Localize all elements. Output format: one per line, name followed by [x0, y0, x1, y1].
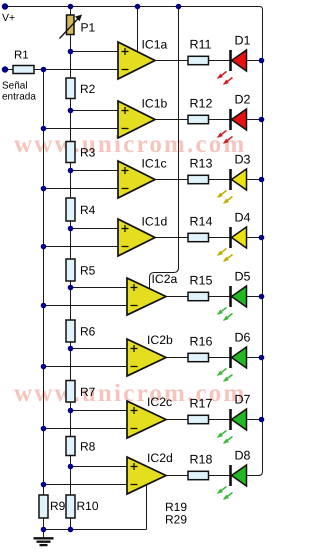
wire: D7 to rail [247, 419, 263, 421]
node: top rail IC1 feed junction [135, 4, 141, 10]
svg-text:P1: P1 [81, 21, 96, 35]
wire: R10 to ground bus [70, 518, 72, 530]
node: signal bus tap to IC2b - [41, 364, 47, 370]
wire: signal bus vertical (R1 node to R9) [43, 70, 45, 496]
LED D2 [217, 109, 247, 144]
op-amp IC2d [127, 457, 166, 494]
wire: R7 to R8 [70, 402, 72, 437]
node: D5 anode rail junction [259, 294, 265, 300]
node: signal bus tap to IC1c - [41, 186, 47, 192]
resistor R1 [13, 66, 34, 74]
svg-text:R4: R4 [80, 203, 96, 217]
svg-text:www.unicrom.com: www.unicrom.com [14, 131, 247, 158]
op-amp IC1a [118, 42, 155, 79]
svg-text:R5: R5 [80, 264, 96, 278]
svg-text:R18: R18 [190, 453, 213, 467]
wire: R13 to D3 [209, 179, 231, 181]
LED D8 [217, 465, 247, 500]
wire: R9 to ground bus [43, 518, 45, 530]
svg-text:R8: R8 [80, 440, 96, 454]
op-amp IC1d [118, 219, 155, 256]
wire: IC2b + input [71, 348, 128, 350]
node: D1 anode rail junction [259, 58, 265, 64]
resistor R8 [66, 437, 75, 456]
svg-text:V+: V+ [2, 12, 15, 24]
wire: IC1b - input [44, 128, 119, 130]
op-amp IC2c [127, 401, 166, 438]
node: signal bus tap to IC2c - [41, 426, 47, 432]
wire: IC2a + input [71, 287, 128, 289]
resistor R9 [39, 495, 48, 518]
svg-text:R11: R11 [190, 38, 212, 52]
wire: IC2a V+ power feed elbow [150, 7, 179, 289]
resistor R18 [188, 471, 209, 479]
svg-text:R7: R7 [80, 385, 96, 399]
node: D7 anode rail junction [259, 417, 265, 423]
wire: IC2c - input [44, 428, 128, 430]
potentiometer P1 [60, 15, 83, 39]
svg-text:D6: D6 [235, 331, 251, 345]
wire: IC2d ground feed [146, 485, 148, 530]
wire: V+ rail to P1 [70, 7, 72, 16]
LED D3 [217, 169, 247, 204]
op-amp IC2a [127, 278, 166, 315]
wire: P1 to R2 [70, 35, 72, 79]
node: divider tap to IC2a + [68, 285, 74, 291]
wire: IC2d - input [44, 484, 128, 486]
wire: IC2c output [166, 419, 188, 421]
wire: IC1d output [155, 237, 188, 239]
node: top rail P1 junction [68, 4, 74, 10]
node: D4 anode rail junction [259, 235, 265, 241]
svg-text:R16: R16 [190, 335, 213, 349]
resistor R13 [188, 175, 209, 183]
wire: IC2a output [166, 296, 188, 298]
wire: D6 to rail [247, 357, 263, 359]
wire: ground bus [44, 529, 147, 531]
node: D2 anode rail junction [259, 117, 265, 123]
wire: R1 to IC1a - input [34, 69, 118, 71]
wire: R8 to R10 [70, 456, 72, 496]
LED D1 [217, 50, 247, 85]
node: V+ terminal [2, 3, 8, 9]
node: divider tap to IC2b + [68, 346, 74, 352]
wire: IC2b - input [44, 366, 128, 368]
svg-text:IC2a: IC2a [152, 272, 178, 286]
svg-text:Señal: Señal [2, 81, 28, 92]
svg-text:IC1b: IC1b [142, 97, 168, 111]
node: signal bus tap to IC2a - [41, 303, 47, 309]
wire: IC2b output [166, 357, 188, 359]
wire: IC1c output [155, 179, 188, 181]
wire: top V+ rail and right rail [5, 7, 263, 476]
wire: R6 to R7 [70, 342, 72, 381]
wire: IC2a - input [44, 305, 128, 307]
wire: R16 to D6 [209, 357, 231, 359]
svg-text:D3: D3 [235, 153, 251, 167]
op-amp IC1c [118, 161, 155, 198]
resistor R12 [188, 115, 209, 123]
wire: IC1c + input [71, 170, 119, 172]
node: divider tap to IC1a + [68, 49, 74, 55]
wire: R4 to R5 [70, 221, 72, 259]
resistor R15 [188, 292, 209, 300]
wire: IC1a V+ power feed [137, 7, 139, 52]
wire: R18 to D8 [209, 475, 231, 477]
wire: D2 to rail [247, 119, 263, 121]
svg-text:IC1d: IC1d [142, 215, 168, 229]
svg-text:D8: D8 [235, 449, 251, 463]
wire: IC1b + input [71, 110, 119, 112]
svg-text:D4: D4 [235, 211, 251, 225]
node: D3 anode rail junction [259, 177, 265, 183]
op-amp IC2b [127, 339, 166, 376]
node: D6 anode rail junction [259, 355, 265, 361]
LED D6 [217, 347, 247, 382]
wire: D3 to rail [247, 179, 263, 181]
wire: IC2d + input [71, 466, 128, 468]
ground [34, 530, 54, 546]
resistor R14 [188, 233, 209, 241]
svg-text:R2: R2 [80, 82, 96, 96]
node: signal bus tap to IC2d - [41, 482, 47, 488]
svg-text:R3: R3 [80, 146, 96, 160]
svg-text:R9: R9 [50, 499, 66, 513]
svg-text:IC2b: IC2b [147, 333, 173, 347]
resistor R6 [66, 320, 75, 342]
wire: IC1a + input [71, 51, 119, 53]
wire: R12 to D2 [209, 119, 231, 121]
svg-text:R14: R14 [190, 215, 213, 229]
svg-text:D5: D5 [235, 270, 251, 284]
svg-text:R15: R15 [190, 274, 213, 288]
wire: D1 to rail [247, 60, 263, 62]
svg-text:D7: D7 [235, 393, 251, 407]
svg-text:R17: R17 [190, 397, 213, 411]
svg-text:R1: R1 [14, 50, 29, 62]
svg-text:R13: R13 [190, 157, 213, 171]
LED D7 [217, 409, 247, 444]
resistor R7 [66, 381, 75, 403]
node: divider tap to IC2c + [68, 408, 74, 414]
svg-text:entrada: entrada [2, 92, 36, 103]
wire: R11 to D1 [209, 60, 231, 62]
wire: señal terminal to R1 [5, 69, 13, 71]
LED D5 [217, 286, 247, 321]
resistor R5 [66, 259, 75, 281]
wire: IC1d + input [71, 228, 119, 230]
wire: IC1d - input [44, 246, 119, 248]
wire: IC1a output [155, 60, 188, 62]
svg-text:R6: R6 [80, 325, 96, 339]
wire: R17 to D7 [209, 419, 231, 421]
node: signal bus tap to IC1d - [41, 244, 47, 250]
node: top rail IC2 feed junction [176, 4, 182, 10]
svg-text:R12: R12 [190, 97, 213, 111]
resistor R3 [66, 142, 75, 163]
svg-text:D2: D2 [235, 93, 251, 107]
resistor R11 [188, 56, 209, 64]
svg-text:IC2d: IC2d [147, 451, 173, 465]
wire: D4 to rail [247, 237, 263, 239]
svg-text:IC1a: IC1a [142, 38, 168, 52]
node: signal bus tap to IC1a - [41, 67, 47, 73]
wire: R15 to D5 [209, 296, 231, 298]
node: divider tap to IC1d + [68, 226, 74, 232]
svg-text:D1: D1 [235, 34, 251, 48]
op-amp IC1b [118, 101, 155, 138]
LED D4 [217, 227, 247, 262]
node: R9 ground junction [41, 527, 47, 533]
wire: IC1b output [155, 119, 188, 121]
node: signal bus tap to IC1b - [41, 126, 47, 132]
svg-text:IC2c: IC2c [147, 395, 172, 409]
wire: R14 to D4 [209, 237, 231, 239]
wire: IC1c - input [44, 188, 119, 190]
svg-text:IC1c: IC1c [142, 157, 167, 171]
resistor R4 [66, 198, 75, 221]
node: divider tap to IC1b + [68, 108, 74, 114]
resistor R16 [188, 353, 209, 361]
wire: R3 to R4 [70, 163, 72, 199]
resistor R2 [66, 78, 75, 99]
wire: IC2d output [166, 475, 188, 477]
svg-text:R10: R10 [77, 499, 99, 513]
node: R10 ground junction [68, 527, 74, 533]
wire: IC2c + input [71, 410, 128, 412]
wire: D5 to rail [247, 296, 263, 298]
node: divider tap to IC2d + [68, 464, 74, 470]
wire: R2 to R3 [70, 99, 72, 142]
svg-text:R29: R29 [165, 513, 187, 527]
wire: R5 to R6 [70, 281, 72, 320]
resistor R17 [188, 415, 209, 423]
node: señal terminal [2, 66, 8, 72]
resistor R10 [66, 495, 75, 518]
node: divider tap to IC1c + [68, 168, 74, 174]
